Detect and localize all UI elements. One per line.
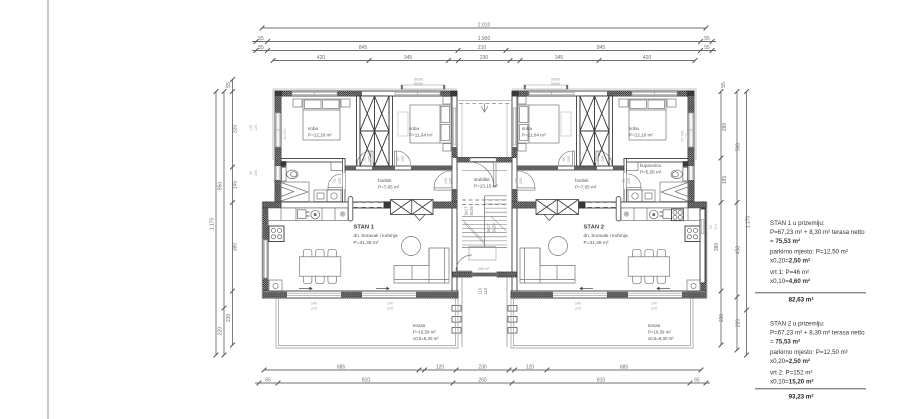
porch canopy dashed bbox=[459, 103, 510, 105]
svg-text:STAN 1 u prizemlju:: STAN 1 u prizemlju: bbox=[770, 220, 825, 227]
dim detail left column bbox=[232, 80, 234, 346]
svg-text:9x29: 9x29 bbox=[492, 223, 497, 233]
wall living bottom hatchC bbox=[416, 292, 458, 298]
wall band left upper bbox=[275, 96, 281, 202]
svg-text:soba: soba bbox=[522, 126, 532, 131]
svg-text:P=11,04 m²: P=11,04 m² bbox=[522, 133, 546, 138]
svg-text:450: 450 bbox=[736, 246, 742, 255]
window top bedroom1 bbox=[292, 91, 337, 96]
porch slab edge left bbox=[461, 104, 463, 157]
svg-text:P=31,38 m²: P=31,38 m² bbox=[584, 240, 609, 246]
svg-text:230: 230 bbox=[719, 314, 725, 323]
svg-text:STAN 1: STAN 1 bbox=[354, 225, 375, 231]
svg-text:110: 110 bbox=[478, 287, 483, 294]
svg-text:= 75,53 m²: = 75,53 m² bbox=[770, 339, 800, 346]
dim 1.170 left bbox=[215, 92, 217, 356]
svg-text:parkirno mjesto: P=12,50 m²: parkirno mjesto: P=12,50 m² bbox=[770, 349, 848, 356]
door opening porch entry bbox=[452, 170, 456, 189]
window left bedroom1 bbox=[275, 113, 281, 147]
svg-text:380: 380 bbox=[233, 243, 239, 252]
wall hatch left lower seg1 bbox=[263, 202, 268, 240]
svg-text:210: 210 bbox=[478, 45, 487, 51]
dim 1.170 right bbox=[746, 92, 748, 356]
svg-text:845: 845 bbox=[597, 45, 606, 51]
svg-text:110: 110 bbox=[714, 224, 718, 230]
dim detail right column bbox=[720, 92, 722, 346]
svg-text:50/90: 50/90 bbox=[551, 82, 560, 86]
door apartment entry bbox=[434, 171, 452, 190]
svg-text:x0,20=2,50 m²: x0,20=2,50 m² bbox=[770, 358, 810, 365]
dim 65-810-260-810-65 row bbox=[255, 382, 710, 384]
wall hatch porch side seg1 bbox=[452, 147, 457, 158]
walkway posts bbox=[452, 306, 517, 334]
stove block left wall bbox=[269, 226, 284, 242]
stair bottom wall right bbox=[497, 272, 517, 277]
svg-text:205: 205 bbox=[567, 156, 571, 162]
svg-text:x0,10=4,60 m²: x0,10=4,60 m² bbox=[770, 278, 810, 285]
svg-text:230: 230 bbox=[480, 55, 489, 61]
wardrobe shaft bbox=[360, 96, 389, 166]
bed 1 bbox=[293, 99, 350, 140]
wall hatch porch side seg2 bbox=[452, 189, 457, 202]
stair top wall hatchB bbox=[496, 158, 512, 163]
svg-text:1.170: 1.170 bbox=[746, 216, 752, 229]
svg-text:= 75,53 m²: = 75,53 m² bbox=[770, 238, 800, 245]
svg-text:vrt 1: P=46 m²: vrt 1: P=46 m² bbox=[770, 269, 809, 276]
svg-text:205: 205 bbox=[254, 170, 258, 176]
svg-text:dn. boravak i kuhinja: dn. boravak i kuhinja bbox=[354, 233, 398, 239]
svg-text:soba: soba bbox=[629, 126, 639, 131]
svg-text:230: 230 bbox=[226, 314, 232, 323]
dim 1.900 row bbox=[252, 41, 716, 43]
svg-text:P=67,23 m² + 8,30 m² terasa ne: P=67,23 m² + 8,30 m² terasa netto bbox=[770, 229, 865, 236]
svg-text:P=12,18 m²: P=12,18 m² bbox=[308, 133, 332, 138]
svg-text:950: 950 bbox=[218, 182, 224, 191]
svg-text:120: 120 bbox=[249, 125, 253, 131]
door bedroom1 bbox=[357, 151, 373, 166]
dining table and chairs bbox=[299, 249, 340, 283]
svg-text:stubište: stubište bbox=[474, 177, 490, 182]
porch slab edge right bbox=[506, 104, 508, 157]
svg-text:P=12,18 m²: P=12,18 m² bbox=[629, 133, 653, 138]
stair door threshold bbox=[470, 158, 496, 161]
svg-text:75: 75 bbox=[622, 179, 626, 183]
svg-text:b=120: b=120 bbox=[283, 129, 287, 140]
svg-text:x0,5=8,30 m²: x0,5=8,30 m² bbox=[413, 336, 439, 341]
svg-text:100: 100 bbox=[444, 178, 448, 184]
svg-text:x0,5=8,30 m²: x0,5=8,30 m² bbox=[648, 336, 674, 341]
stair entry door bbox=[470, 162, 496, 187]
entrance door leaf bbox=[456, 255, 472, 271]
wall hatch top seg1 bbox=[281, 91, 292, 96]
svg-text:90: 90 bbox=[562, 157, 566, 161]
pass-through dashed bbox=[354, 202, 384, 208]
svg-text:9x17: 9x17 bbox=[486, 223, 491, 233]
porch canopy line bbox=[457, 100, 512, 102]
apartment 1 geometry bbox=[262, 85, 458, 298]
svg-text:120: 120 bbox=[254, 125, 258, 131]
door bedroom2 bbox=[394, 151, 410, 166]
svg-text:685: 685 bbox=[337, 364, 346, 370]
wall step left bbox=[263, 202, 281, 208]
slider window 2 bbox=[362, 293, 416, 295]
sideboard crossed bbox=[391, 200, 434, 215]
svg-text:P=16,59 m²: P=16,59 m² bbox=[413, 330, 436, 335]
svg-text:810: 810 bbox=[362, 377, 371, 383]
svg-text:55: 55 bbox=[258, 45, 264, 51]
stair flights bbox=[462, 171, 507, 248]
svg-text:terasa: terasa bbox=[648, 323, 661, 328]
svg-text:55: 55 bbox=[258, 36, 264, 42]
svg-text:P=31,38 m²: P=31,38 m² bbox=[354, 240, 379, 246]
window top bedroom2 bbox=[395, 91, 440, 96]
svg-text:55: 55 bbox=[704, 45, 710, 51]
kitchen counter end bbox=[348, 197, 353, 222]
window left living bbox=[263, 240, 268, 278]
svg-text:230: 230 bbox=[478, 364, 487, 370]
svg-text:260: 260 bbox=[478, 377, 487, 383]
svg-text:205: 205 bbox=[519, 178, 523, 184]
window porch side bbox=[452, 108, 457, 145]
stair top wall bbox=[457, 158, 512, 163]
svg-text:345: 345 bbox=[555, 55, 564, 61]
terrace 2 outline bbox=[511, 299, 693, 349]
dim 2.010 bbox=[262, 27, 706, 29]
svg-text:205: 205 bbox=[401, 156, 405, 162]
wall bathroom right bbox=[343, 159, 346, 203]
svg-text:60: 60 bbox=[249, 171, 253, 175]
svg-text:hodnik: hodnik bbox=[378, 178, 392, 183]
canopy above window bbox=[401, 85, 445, 89]
svg-text:65: 65 bbox=[265, 377, 271, 383]
svg-text:90: 90 bbox=[363, 157, 367, 161]
wall hatch left lower seg2 bbox=[263, 278, 268, 291]
svg-text:P=16,59 m²: P=16,59 m² bbox=[648, 330, 671, 335]
svg-text:205: 205 bbox=[627, 178, 631, 184]
svg-text:220: 220 bbox=[218, 327, 224, 336]
svg-text:345: 345 bbox=[404, 55, 413, 61]
stair bottom wall left bbox=[453, 272, 473, 277]
svg-text:90: 90 bbox=[596, 157, 600, 161]
svg-text:120: 120 bbox=[526, 364, 535, 370]
svg-text:STAN 2 u prizemlju:: STAN 2 u prizemlju: bbox=[770, 321, 825, 328]
svg-text:240: 240 bbox=[651, 302, 657, 306]
kitchen dot bbox=[340, 211, 345, 216]
svg-text:320: 320 bbox=[233, 125, 239, 134]
corner column NW bbox=[275, 91, 282, 97]
svg-text:soba: soba bbox=[409, 126, 419, 131]
wall living top hatchB bbox=[433, 202, 457, 208]
svg-text:hodnik: hodnik bbox=[575, 178, 589, 183]
svg-text:280: 280 bbox=[722, 123, 728, 132]
wall bedrooms bottom hatchC bbox=[411, 166, 452, 170]
wall bathroom bottom opening bbox=[343, 173, 346, 189]
page margin line bbox=[47, 0, 49, 419]
walkway edge left bbox=[461, 277, 463, 347]
svg-text:380: 380 bbox=[714, 243, 720, 252]
svg-text:9x29: 9x29 bbox=[469, 206, 474, 216]
wall living bottom bbox=[263, 291, 458, 298]
svg-text:120: 120 bbox=[685, 133, 689, 139]
dim 500-450-220 right bbox=[736, 92, 738, 351]
wall hatch left seg3 bbox=[275, 180, 281, 202]
bath vent bbox=[281, 162, 286, 167]
svg-text:55: 55 bbox=[226, 82, 232, 88]
svg-text:soba: soba bbox=[308, 126, 318, 131]
stair void dashed bbox=[462, 200, 507, 205]
svg-text:P=160: P=160 bbox=[681, 130, 685, 141]
svg-text:55: 55 bbox=[721, 82, 727, 88]
svg-text:dn. boravak i kuhinja: dn. boravak i kuhinja bbox=[584, 233, 628, 239]
outer contour light line bbox=[262, 89, 458, 298]
window left bath bbox=[277, 166, 279, 180]
washing machine bbox=[314, 190, 327, 202]
kitchen counter bbox=[268, 208, 348, 221]
kitchen sink bbox=[298, 210, 320, 219]
svg-text:x0,20=2,50 m²: x0,20=2,50 m² bbox=[770, 258, 810, 265]
svg-text:55: 55 bbox=[704, 36, 710, 42]
svg-text:STAN 2: STAN 2 bbox=[584, 225, 605, 231]
svg-text:9x17: 9x17 bbox=[464, 206, 469, 216]
wall living bottom hatchB bbox=[341, 292, 362, 298]
svg-text:220: 220 bbox=[736, 319, 742, 328]
svg-text:205: 205 bbox=[601, 156, 605, 162]
dim 420-345-230-345-420 row bbox=[273, 60, 695, 62]
svg-text:220: 220 bbox=[311, 307, 317, 311]
bath sink bbox=[327, 190, 341, 202]
svg-text:810: 810 bbox=[597, 377, 606, 383]
svg-text:65: 65 bbox=[694, 377, 700, 383]
svg-text:240: 240 bbox=[575, 302, 581, 306]
svg-text:1.170: 1.170 bbox=[210, 218, 216, 231]
walkway edge right bbox=[506, 277, 508, 347]
svg-text:kupaonica: kupaonica bbox=[640, 163, 661, 168]
wall hatch left seg1 bbox=[275, 96, 281, 113]
svg-text:50/50: 50/50 bbox=[551, 78, 560, 82]
shower bbox=[281, 182, 309, 202]
dim 845-210-845 row bbox=[252, 50, 716, 52]
door bathroom bbox=[328, 174, 343, 190]
stove in counter apt2 bbox=[672, 209, 684, 221]
svg-text:75: 75 bbox=[333, 179, 337, 183]
svg-text:parkirno mjesto: P=12,50 m²: parkirno mjesto: P=12,50 m² bbox=[770, 249, 848, 256]
svg-text:500: 500 bbox=[736, 143, 742, 152]
dim 950-220 left bbox=[223, 92, 225, 356]
svg-text:2.010: 2.010 bbox=[478, 22, 491, 28]
svg-text:145: 145 bbox=[233, 181, 239, 190]
round table bbox=[402, 237, 421, 256]
svg-text:82,63 m²: 82,63 m² bbox=[789, 296, 814, 303]
porch arrow bbox=[481, 104, 488, 113]
wall pier bbox=[384, 202, 391, 208]
svg-text:50/50: 50/50 bbox=[414, 78, 423, 82]
entrance threshold bbox=[472, 273, 497, 276]
wall band porch side bbox=[452, 96, 457, 291]
svg-text:185: 185 bbox=[722, 176, 728, 185]
window right living patch bbox=[700, 209, 705, 283]
svg-text:50/90: 50/90 bbox=[414, 82, 423, 86]
bed 2 bbox=[410, 97, 451, 152]
svg-text:420: 420 bbox=[643, 55, 652, 61]
svg-text:845: 845 bbox=[359, 45, 368, 51]
svg-text:93,23 m²: 93,23 m² bbox=[789, 394, 814, 401]
svg-text:90: 90 bbox=[396, 157, 400, 161]
svg-text:100: 100 bbox=[515, 178, 519, 184]
bath shelf bbox=[331, 162, 343, 171]
bedroom2 rug bbox=[398, 112, 408, 136]
svg-text:685: 685 bbox=[620, 364, 629, 370]
slider window 1 bbox=[287, 293, 341, 295]
dim 685-120-230-120-685 row bbox=[264, 369, 701, 371]
svg-text:P=67,23 m² + 8,30 m² terasa ne: P=67,23 m² + 8,30 m² terasa netto bbox=[770, 330, 865, 337]
wall bedroom1-closet bbox=[357, 96, 361, 166]
svg-text:P=11,04 m²: P=11,04 m² bbox=[409, 133, 433, 138]
svg-text:205: 205 bbox=[449, 178, 453, 184]
wall living bottom hatchA bbox=[263, 292, 287, 298]
wall living top bbox=[281, 202, 457, 208]
svg-text:vrt 2: P=152 m²: vrt 2: P=152 m² bbox=[770, 370, 812, 377]
svg-text:205: 205 bbox=[368, 156, 372, 162]
tv console bbox=[407, 210, 432, 220]
wall band top bedroom1 bbox=[275, 91, 457, 96]
sofa bbox=[394, 248, 449, 283]
svg-text:P=13,15 m²: P=13,15 m² bbox=[474, 184, 498, 189]
slider arrow 1 bbox=[299, 287, 312, 290]
svg-text:P=7,05 m²: P=7,05 m² bbox=[378, 185, 400, 190]
svg-text:x0,10=15,20 m²: x0,10=15,20 m² bbox=[770, 379, 814, 386]
svg-text:P=5,58 m²: P=5,58 m² bbox=[640, 170, 662, 175]
svg-text:220: 220 bbox=[387, 307, 393, 311]
svg-text:006 m²: 006 m² bbox=[478, 267, 490, 271]
svg-text:terasa: terasa bbox=[413, 323, 426, 328]
wall bathroom top bbox=[281, 159, 345, 163]
svg-text:220: 220 bbox=[575, 307, 581, 311]
wall hatch left seg2 bbox=[275, 147, 281, 166]
svg-text:240: 240 bbox=[387, 302, 393, 306]
slider arrow 2 bbox=[376, 287, 389, 290]
wall bedrooms bottom hatchB bbox=[372, 166, 395, 170]
wall band left lower bbox=[263, 202, 268, 291]
wall hatch top seg3 bbox=[440, 91, 457, 96]
wall bedrooms bottom bbox=[345, 166, 452, 170]
wall closet-bedroom2 bbox=[389, 96, 393, 166]
apartment 2 geometry (mirror) bbox=[511, 85, 707, 298]
toilet bbox=[282, 168, 298, 182]
svg-text:P=7,05 m²: P=7,05 m² bbox=[575, 185, 597, 190]
stair landing slab bbox=[469, 247, 496, 261]
svg-text:220: 220 bbox=[651, 307, 657, 311]
svg-text:240: 240 bbox=[311, 302, 317, 306]
svg-text:1.900: 1.900 bbox=[478, 36, 491, 42]
svg-text:205: 205 bbox=[338, 178, 342, 184]
corner column porch N bbox=[451, 91, 458, 97]
svg-text:120: 120 bbox=[436, 364, 445, 370]
plant square bbox=[269, 280, 282, 292]
wall hatch top seg2 bbox=[337, 91, 362, 96]
svg-text:90: 90 bbox=[709, 225, 713, 229]
wall bedrooms bottom hatchA bbox=[345, 166, 356, 170]
svg-text:420: 420 bbox=[317, 55, 326, 61]
svg-text:110: 110 bbox=[483, 287, 488, 294]
stair top wall hatchA bbox=[457, 158, 470, 163]
terrace 1 outline bbox=[276, 299, 458, 349]
